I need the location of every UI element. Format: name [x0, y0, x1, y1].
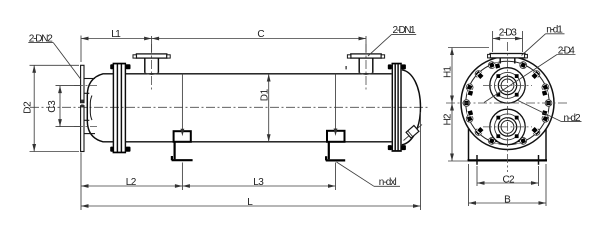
svg-text:2-D3: 2-D3 — [499, 28, 517, 39]
svg-text:D1: D1 — [259, 88, 270, 101]
svg-text:n-dxl: n-dxl — [379, 177, 397, 188]
svg-text:L: L — [247, 197, 253, 208]
svg-text:C2: C2 — [503, 174, 515, 185]
svg-text:C: C — [257, 29, 264, 40]
svg-text:H1: H1 — [442, 66, 453, 78]
svg-text:2-D4: 2-D4 — [558, 46, 575, 57]
svg-text:B: B — [504, 194, 511, 205]
svg-text:L2: L2 — [126, 177, 137, 188]
svg-text:H2: H2 — [442, 113, 453, 125]
svg-text:n-d2: n-d2 — [564, 113, 581, 124]
svg-text:L1: L1 — [111, 29, 121, 40]
svg-text:C3: C3 — [47, 100, 58, 113]
svg-text:D2: D2 — [22, 101, 33, 114]
svg-text:L3: L3 — [253, 177, 264, 188]
